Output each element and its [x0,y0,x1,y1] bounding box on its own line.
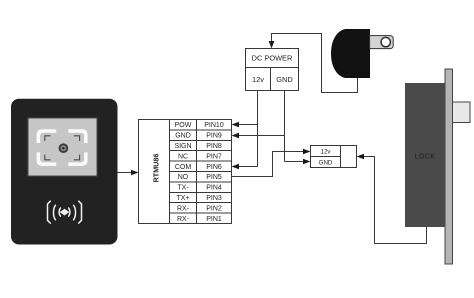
wire DC GND vertical [284,91,286,162]
svg-text:NC: NC [178,153,188,160]
DC POWER labels [252,54,293,84]
svg-text:PIN9: PIN9 [206,133,222,140]
lock body [405,83,445,227]
wire GND to PIN9 [232,133,285,139]
RFID reader body [11,99,118,245]
RFID waves icon [48,201,82,223]
lock connector labels [319,149,333,167]
svg-text:DC POWER: DC POWER [252,54,293,63]
svg-text:PIN5: PIN5 [206,174,222,181]
svg-text:PIN6: PIN6 [206,164,222,171]
svg-text:SIGN: SIGN [174,143,191,150]
svg-text:RX-: RX- [177,205,190,212]
svg-text:PIN8: PIN8 [206,143,222,150]
svg-text:GND: GND [276,75,292,84]
RTMU86 label [151,154,160,183]
svg-text:RTMU86: RTMU86 [151,154,160,183]
lock strike tab [453,102,471,123]
svg-text:TX-: TX- [177,185,189,192]
svg-text:GND: GND [175,133,191,140]
svg-text:GND: GND [319,160,333,167]
wire reader to RTMU86 [118,170,139,176]
svg-text:PIN10: PIN10 [204,122,224,129]
wire 12v to PIN10 [232,122,258,128]
svg-text:COM: COM [175,164,192,171]
power adapter [331,29,393,78]
lock connector box [311,146,357,168]
wire NO PIN5 to lock connector 12v [232,149,311,177]
svg-text:RX-: RX- [177,216,190,223]
svg-text:PIN2: PIN2 [206,205,222,212]
LOCK label [415,154,436,161]
svg-text:PIN4: PIN4 [206,185,222,192]
wire adapter to DC POWER [269,34,358,93]
svg-text:TX+: TX+ [176,195,189,202]
reader camera panel [28,118,97,176]
DC POWER box [246,49,299,91]
svg-text:12v: 12v [252,75,264,84]
pin name labels [174,122,191,223]
svg-text:POW: POW [175,122,192,129]
svg-text:PIN3: PIN3 [206,195,222,202]
svg-text:PIN1: PIN1 [206,216,222,223]
terminal block RTMU86 [139,120,232,224]
pin number labels [204,122,224,223]
wire GND to lock connector GND [285,159,311,165]
wire DC 12v vertical [257,91,259,167]
lock mounting plate [445,69,453,264]
svg-text:LOCK: LOCK [415,154,436,161]
svg-text:PIN7: PIN7 [206,153,222,160]
wire lock to connector [357,154,427,244]
svg-text:NO: NO [178,174,189,181]
wire 12v to PIN6 [232,164,258,170]
svg-text:12v: 12v [321,149,332,156]
